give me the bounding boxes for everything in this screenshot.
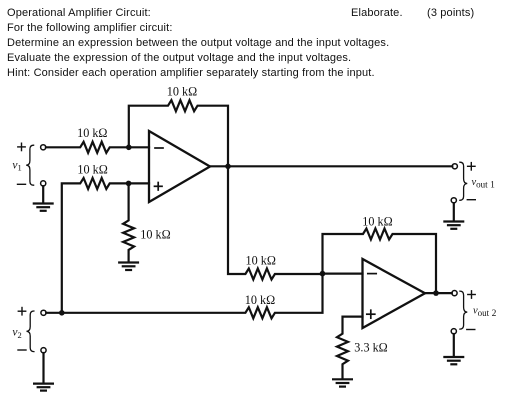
svg-text:vout 2: vout 2 xyxy=(473,306,497,320)
svg-text:v1: v1 xyxy=(12,159,21,172)
svg-text:vout 1: vout 1 xyxy=(472,177,496,191)
svg-text:v2: v2 xyxy=(12,327,21,340)
svg-text:3.3 kΩ: 3.3 kΩ xyxy=(354,341,387,355)
svg-text:10 kΩ: 10 kΩ xyxy=(245,293,275,307)
svg-text:10 kΩ: 10 kΩ xyxy=(77,126,107,140)
svg-text:10 kΩ: 10 kΩ xyxy=(246,254,276,268)
svg-text:10 kΩ: 10 kΩ xyxy=(140,228,170,242)
svg-text:10 kΩ: 10 kΩ xyxy=(77,163,107,177)
svg-text:10 kΩ: 10 kΩ xyxy=(167,84,197,98)
svg-text:10 kΩ: 10 kΩ xyxy=(362,215,392,229)
